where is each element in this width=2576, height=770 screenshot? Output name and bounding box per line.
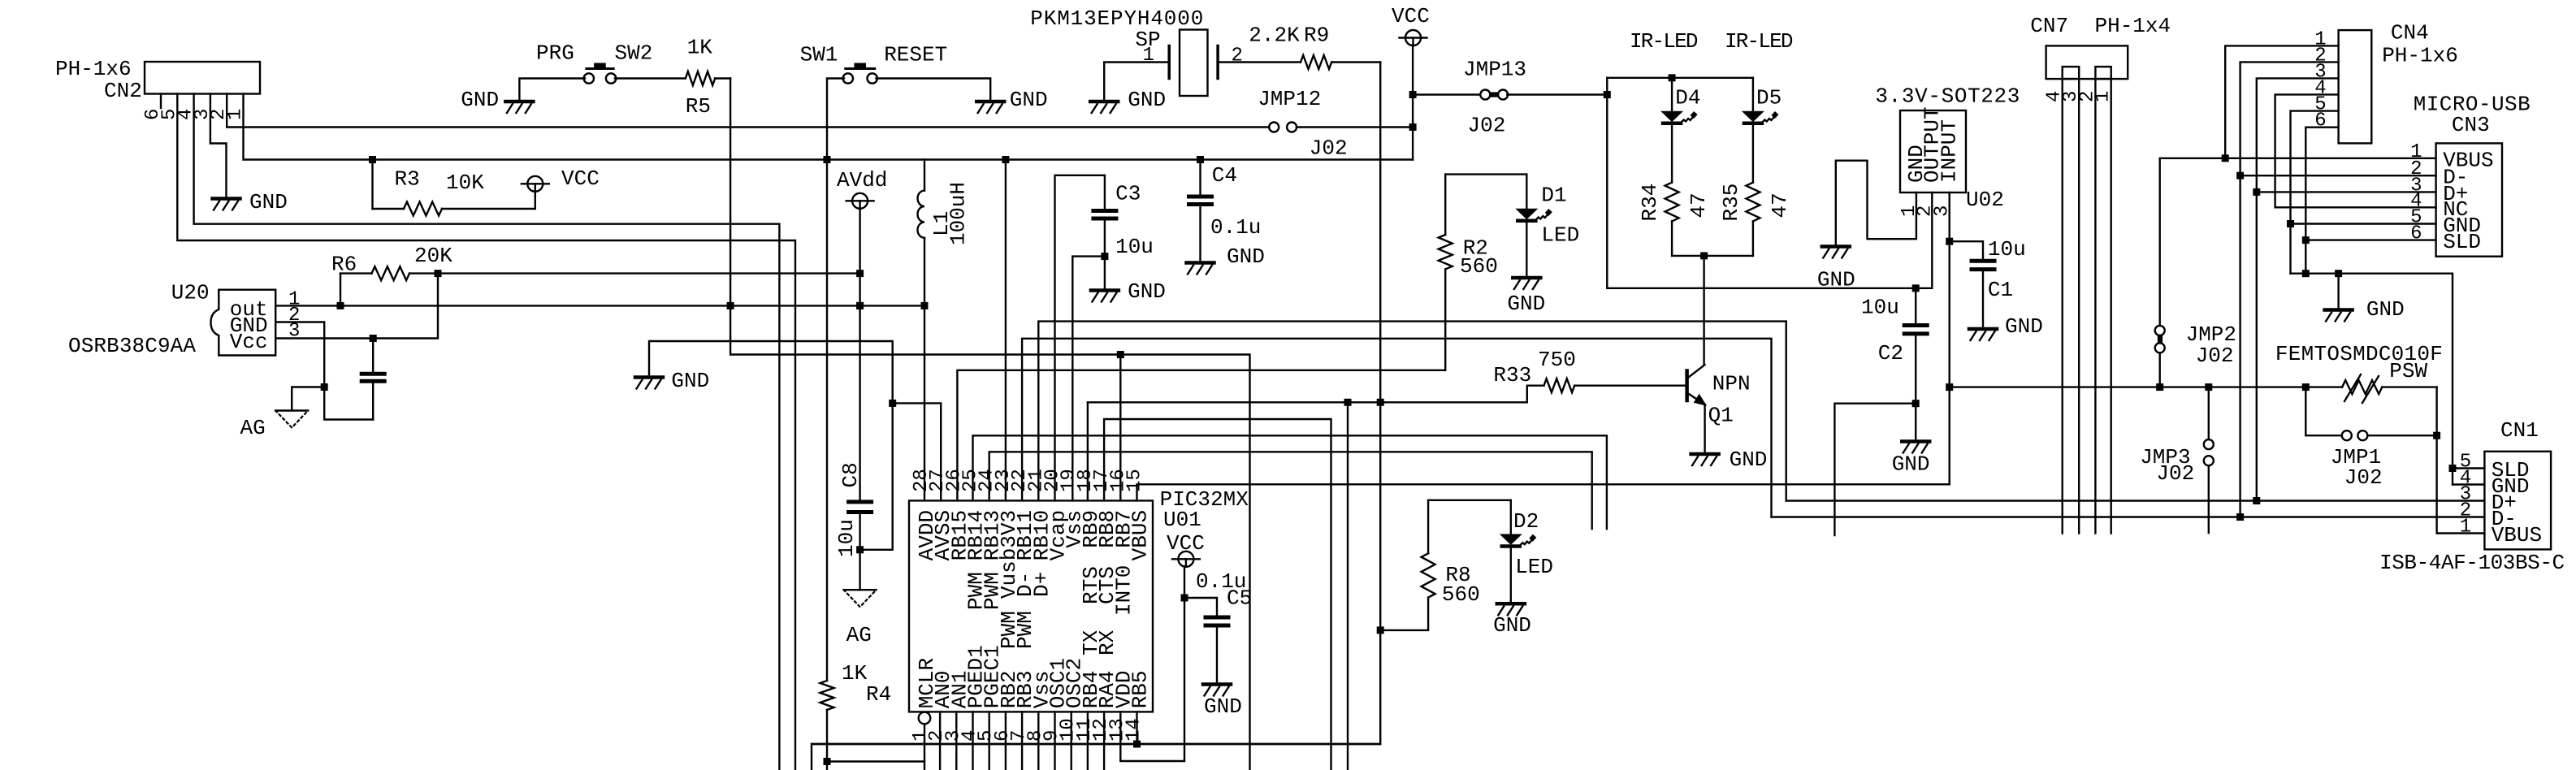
ground symbol D2 [1497,602,1525,606]
svg-text:ISB-4AF-103BS-C: ISB-4AF-103BS-C [2379,551,2565,575]
svg-text:750: 750 [1538,348,1576,372]
wire JMP12 east segment to VCC stem [1297,126,1413,128]
svg-text:C4: C4 [1212,163,1237,188]
switch SW2 PRG [584,73,594,83]
svg-text:R3: R3 [395,167,420,192]
svg-text:INPUT: INPUT [1937,119,1962,183]
power symbol VCC at PIC [1178,552,1193,567]
jumper JMP12 J02 open [1269,123,1279,132]
piezo speaker SP PKM13EPYH4000 [1180,30,1208,97]
resistor R34 47 [1671,125,1673,183]
wire JMP1 left [2305,387,2342,436]
wire RB10 pin21 D+ rail [1038,322,1786,501]
svg-text:GND: GND [1128,88,1166,112]
svg-text:2.2K: 2.2K [1249,24,1300,48]
svg-text:VCC: VCC [1392,4,1430,28]
wire Vusb3V3 pin23 riser [1005,160,1007,501]
capacitor at U20 [372,339,374,374]
wire IR-LED bottom rail to Q1 collector [1672,255,1753,257]
svg-text:C2: C2 [1878,341,1903,366]
wire D2-R8 top rail [1428,500,1511,501]
MCLR inverting bubble pin1 [919,712,931,725]
svg-text:20K: 20K [414,244,452,268]
svg-text:GND: GND [1817,268,1855,292]
svg-text:PH-1x6: PH-1x6 [2382,44,2458,68]
svg-text:6: 6 [2410,223,2422,245]
wire CN4 pin4 to CN3 NC [2275,94,2436,207]
svg-text:GND: GND [2005,314,2043,339]
wire SW2 to ground [519,79,585,101]
svg-text:CN7: CN7 [2030,14,2068,38]
svg-text:47: 47 [1768,192,1792,218]
capacitor C1 10u [1950,241,1983,261]
svg-text:1: 1 [2460,517,2471,539]
microcontroller U01 PIC32MX body [909,500,1153,712]
svg-text:PWM: PWM [1013,611,1037,649]
switch SW1 RESET [843,73,853,83]
capacitor C8 10u [849,500,872,504]
connector CN1 USB-A body [2484,452,2551,550]
ground symbol C1 [1969,327,1997,331]
svg-text:100uH: 100uH [946,182,971,245]
transistor Q1 NPN [1685,371,1689,401]
svg-text:GND: GND [1128,279,1166,304]
ground symbol SW2 [505,100,533,104]
svg-text:JMP12: JMP12 [1258,87,1321,111]
svg-text:U02: U02 [1966,188,2004,212]
svg-text:PRG: PRG [536,41,574,66]
wire D+ row to CN1 [1786,500,2485,501]
svg-text:Q1: Q1 [1708,404,1734,428]
wire U20 out rail y=376.4 [275,305,924,306]
svg-text:6: 6 [142,109,164,120]
wire CN1 GND stub [2453,483,2484,485]
ground symbol C3 [1091,288,1119,292]
polyswitch PSW FEMTOSMDC010F [2342,380,2382,394]
svg-text:3.3V-SOT223: 3.3V-SOT223 [1875,84,2020,109]
wire VBUS riser to CN1 [2437,435,2485,533]
svg-text:R4: R4 [866,682,891,707]
svg-text:CN3: CN3 [2452,113,2490,137]
wire VCC stem down to rail ends [1412,45,1414,160]
svg-text:GND: GND [1010,88,1048,112]
svg-text:GND: GND [671,369,709,393]
wire U02 pin3 INPUT riser [1948,192,1950,484]
wire to AG ground [292,387,324,411]
wire U02 pin2 OUTPUT stub [1931,192,1933,288]
wire GND-SLD rail y=336.7 [2291,274,2453,485]
svg-text:R5: R5 [686,94,711,119]
wire R9 long vertical to line A [812,63,1380,770]
wire SW1 right to ground [877,79,991,101]
svg-text:AG: AG [240,416,266,440]
jumper JMP1 J02 open [2342,430,2352,440]
svg-text:28: 28 [911,469,933,492]
wire RB9 rail y=495.3 [1088,401,1527,403]
wire CN2 pin2 net (y=156.5 rail to JMP12) [227,94,1269,128]
connector CN7 PH-1x4 body [2046,45,2128,79]
svg-text:47: 47 [1686,192,1711,218]
svg-text:INT0: INT0 [1111,565,1136,616]
IR receiver U20 OSRB38C9AA body [211,290,276,356]
svg-text:LED: LED [1541,223,1579,248]
svg-text:Vcc: Vcc [230,330,268,354]
resistor R5 1K [615,77,686,79]
svg-text:10K: 10K [446,171,484,195]
svg-text:PH-1x6: PH-1x6 [55,57,132,81]
wire RB14 pin25 rail [973,435,1607,529]
svg-text:R33: R33 [1493,363,1531,387]
wire AVDD pin28 riser [924,305,925,500]
wire CN2 pin3 to ground [210,94,227,198]
svg-text:1K: 1K [842,661,868,686]
ground symbol U02 [1822,244,1850,249]
svg-text:10u: 10u [1988,237,2026,262]
wire RB9 pin18 stub [1087,402,1089,500]
svg-text:VCC: VCC [561,167,600,191]
svg-text:560: 560 [1442,582,1480,607]
wire RB8 pin17 rail [1104,419,1331,770]
wire D1 to ground [1526,223,1527,277]
ground symbol C2 [1902,439,1929,443]
svg-text:R34: R34 [1638,184,1662,222]
wire U20 GND pin to AG and cap [275,322,373,420]
wire JMP13 right to IR-LED block [1507,93,1607,95]
wire R6 rail to AVdd stem [438,272,860,274]
wire CN4 pin3 to CN3 D+ and D+ row [2257,78,2339,500]
wire D1-R2 top rail [1445,173,1526,175]
wire AVdd stem [859,208,860,502]
wire RB11 pin22 D- rail [1022,339,1771,517]
svg-text:SW1: SW1 [800,43,838,67]
svg-text:14: 14 [1123,718,1145,742]
wire Vcap pin20 riser [1055,175,1105,501]
svg-text:GND: GND [1892,452,1930,477]
ground symbol SW1 [976,100,1004,104]
wire U20 Vcc pin [275,274,438,339]
wire piezo pin1 to ground [1104,63,1169,101]
wire PSW right down to JMP1 dot [2435,387,2437,436]
connector CN2 PH-1x6 box [145,62,260,94]
svg-text:GND: GND [1204,694,1242,719]
svg-text:GND: GND [1493,613,1531,638]
svg-text:GND: GND [1730,448,1768,472]
svg-text:J02: J02 [2156,461,2194,486]
resistor R35 47 [1752,125,1754,183]
svg-text:CN2: CN2 [104,79,142,103]
ground symbol mid GND [635,375,663,379]
svg-text:0.1u: 0.1u [1210,215,1261,240]
ground symbol piezo [1090,100,1118,104]
svg-text:C5: C5 [1227,586,1252,611]
wire CN3 gnd stem [2337,274,2339,309]
svg-text:560: 560 [1460,254,1498,279]
svg-text:PKM13EPYH4000: PKM13EPYH4000 [1030,6,1203,31]
jumper JMP2 J02 closed [2155,326,2165,335]
svg-text:CN1: CN1 [2500,418,2539,443]
analog ground AG symbol U20 [275,409,308,411]
svg-text:NPN: NPN [1712,372,1751,396]
svg-text:D4: D4 [1675,86,1700,110]
wire RB5 pin14 stub [1136,712,1137,744]
resistor R2 560 [1444,175,1446,235]
LED D1 [1526,175,1527,210]
svg-text:GND: GND [2366,297,2405,322]
ground symbol D1 [1513,276,1540,280]
ground symbol C4 [1187,261,1214,265]
wire CN1 SLD stub [2453,467,2484,469]
wire CN4 pin5 to CN3 GND [2291,111,2339,274]
jumper JMP3 J02 open [2204,439,2214,449]
capacitor C2 10u [1915,288,1916,326]
svg-text:GND: GND [1507,292,1545,316]
wire CN2 pin1 MCLR/VCC rail y=196.5 [244,94,1414,160]
power symbol VCC top [1405,30,1421,45]
wire IR-LED left vertical and bottom feed rail [1607,78,1932,288]
svg-text:PH-1x4: PH-1x4 [2095,14,2171,38]
resistor R33 750 [1574,385,1686,387]
power symbol AVdd [852,193,868,209]
resistor R6 20K [340,274,341,306]
wire PIC bottom pin stubs 2-12 off sheet [939,712,941,770]
wire C8 to AG [859,513,860,590]
capacitor C3 10u [1104,175,1106,210]
wire line A RB5 net y=916 [812,743,1380,745]
svg-text:VBUS: VBUS [1128,510,1153,560]
svg-text:SLD: SLD [2443,230,2481,254]
svg-text:U20: U20 [171,281,210,305]
svg-text:10u: 10u [1115,235,1154,259]
wire D- row to CN1 [1772,516,2485,517]
wire AVSS pin27 branch [893,403,942,500]
resistor R8 560 [1427,500,1429,554]
ground symbol CN3 [2325,308,2353,312]
regulator U02 3.3V-SOT223 body [1900,110,1966,192]
wire CN2 pin4 net [194,94,780,770]
svg-text:RESET: RESET [884,43,947,67]
svg-text:GND: GND [1227,244,1265,269]
wire power rail to PSW [1950,386,2342,387]
svg-text:RB5: RB5 [1128,670,1153,708]
capacitor C4 0.1u [1199,160,1201,197]
svg-text:GND: GND [249,190,288,214]
svg-text:D1: D1 [1541,184,1566,208]
svg-text:PSW: PSW [2389,359,2427,383]
wire IR-LED top rail [1607,77,1753,79]
svg-text:2: 2 [1232,45,1243,67]
svg-text:D+: D+ [1029,572,1054,597]
svg-text:C3: C3 [1115,182,1141,206]
svg-text:VBUS: VBUS [2492,523,2542,547]
svg-text:IR-LED: IR-LED [1725,29,1794,54]
svg-text:SW2: SW2 [615,41,653,66]
svg-text:J02: J02 [2344,465,2383,490]
LED D2 [1510,500,1512,535]
ground symbol C5 [1203,682,1231,686]
svg-text:C8: C8 [838,462,863,487]
svg-text:VCC: VCC [1167,531,1205,556]
connector CN3 MICRO-USB body [2436,143,2502,256]
connector CN4 PH-1x6 body [2339,30,2372,143]
wire R5 long vertical to INT0 rail [730,79,1249,770]
wire D2 to ground [1510,548,1512,603]
wire JMP13 left [1413,93,1480,95]
wire JMP1 right [2367,435,2436,436]
svg-text:IR-LED: IR-LED [1630,29,1699,54]
svg-text:10u: 10u [834,519,859,557]
ground symbol Q1 [1691,452,1719,456]
wire VBUS pin15 rail [1137,484,1950,500]
svg-text:GND: GND [461,88,499,112]
wire CN4 pin2 to CN3 D- and D- row [2240,62,2339,517]
svg-text:J02: J02 [1468,114,1506,138]
analog ground AG symbol [844,589,877,590]
ground symbol CN2 pin3 [213,197,240,201]
svg-text:R6: R6 [331,253,357,277]
wire U02 pin1 GND route [1836,161,1916,245]
inductor L1 100uH [924,160,925,191]
svg-text:R9: R9 [1304,24,1329,48]
wire Q1 emitter to ground [1704,404,1705,453]
wire JMP2 vertical [2158,158,2160,326]
jumper JMP13 J02 closed [1480,90,1490,100]
wire RB15 rail y=455.8 [957,370,1445,501]
wire RB7 pin16 stub [1119,355,1121,501]
wire SW1 left to MCLR rail and R4 [827,79,844,681]
svg-text:1K: 1K [687,36,713,60]
svg-text:10u: 10u [1861,296,1899,320]
LED D4 [1671,78,1673,112]
svg-text:RX: RX [1095,629,1119,655]
wire R4 to MCLR pin1 [827,762,924,770]
wire CN4 pin1 to CN3 VBUS and JMP2 [2225,45,2338,158]
resistor R4 1K [820,681,834,710]
svg-text:1: 1 [1143,45,1154,67]
svg-text:R35: R35 [1719,184,1743,222]
capacitor C5 0.1u [1184,598,1217,617]
svg-text:J02: J02 [1310,136,1348,161]
svg-text:PWM: PWM [981,572,1005,610]
resistor R3 10K [371,160,373,210]
wire RB9 rail stub down [1347,402,1349,770]
svg-text:JMP13: JMP13 [1463,58,1526,82]
svg-text:OSRB38C9AA: OSRB38C9AA [68,334,196,358]
LED D5 [1752,78,1754,112]
svg-text:D5: D5 [1756,86,1782,110]
svg-text:6: 6 [2314,110,2326,132]
wire CN2 pin5 net [177,94,795,770]
power symbol VCC at R3 [535,191,536,209]
svg-text:CN4: CN4 [2391,21,2429,45]
CN2 pin 6 stub [160,94,162,109]
svg-text:D2: D2 [1513,509,1539,534]
wire Vss pin19 riser [1072,257,1105,501]
wire C2 junction west stub [1834,404,1916,535]
svg-text:J02: J02 [2196,344,2234,368]
wire C8 junction east to GND riser [649,341,893,550]
wire JMP3 vertical [2208,387,2210,439]
wire VDD pin13 to VCC [1120,566,1184,761]
resistor R9 2.2K [1218,61,1301,63]
svg-text:AVdd: AVdd [837,168,887,192]
svg-text:U01: U01 [1163,508,1201,532]
svg-text:LED: LED [1515,555,1553,579]
svg-text:AG: AG [846,623,872,647]
wire RB13 pin24 rail [989,452,1592,529]
wire CN4 pin6 to CN3 SLD [2305,128,2338,274]
wire CN7 pin wires [2061,79,2063,533]
svg-text:C1: C1 [1988,278,2013,302]
